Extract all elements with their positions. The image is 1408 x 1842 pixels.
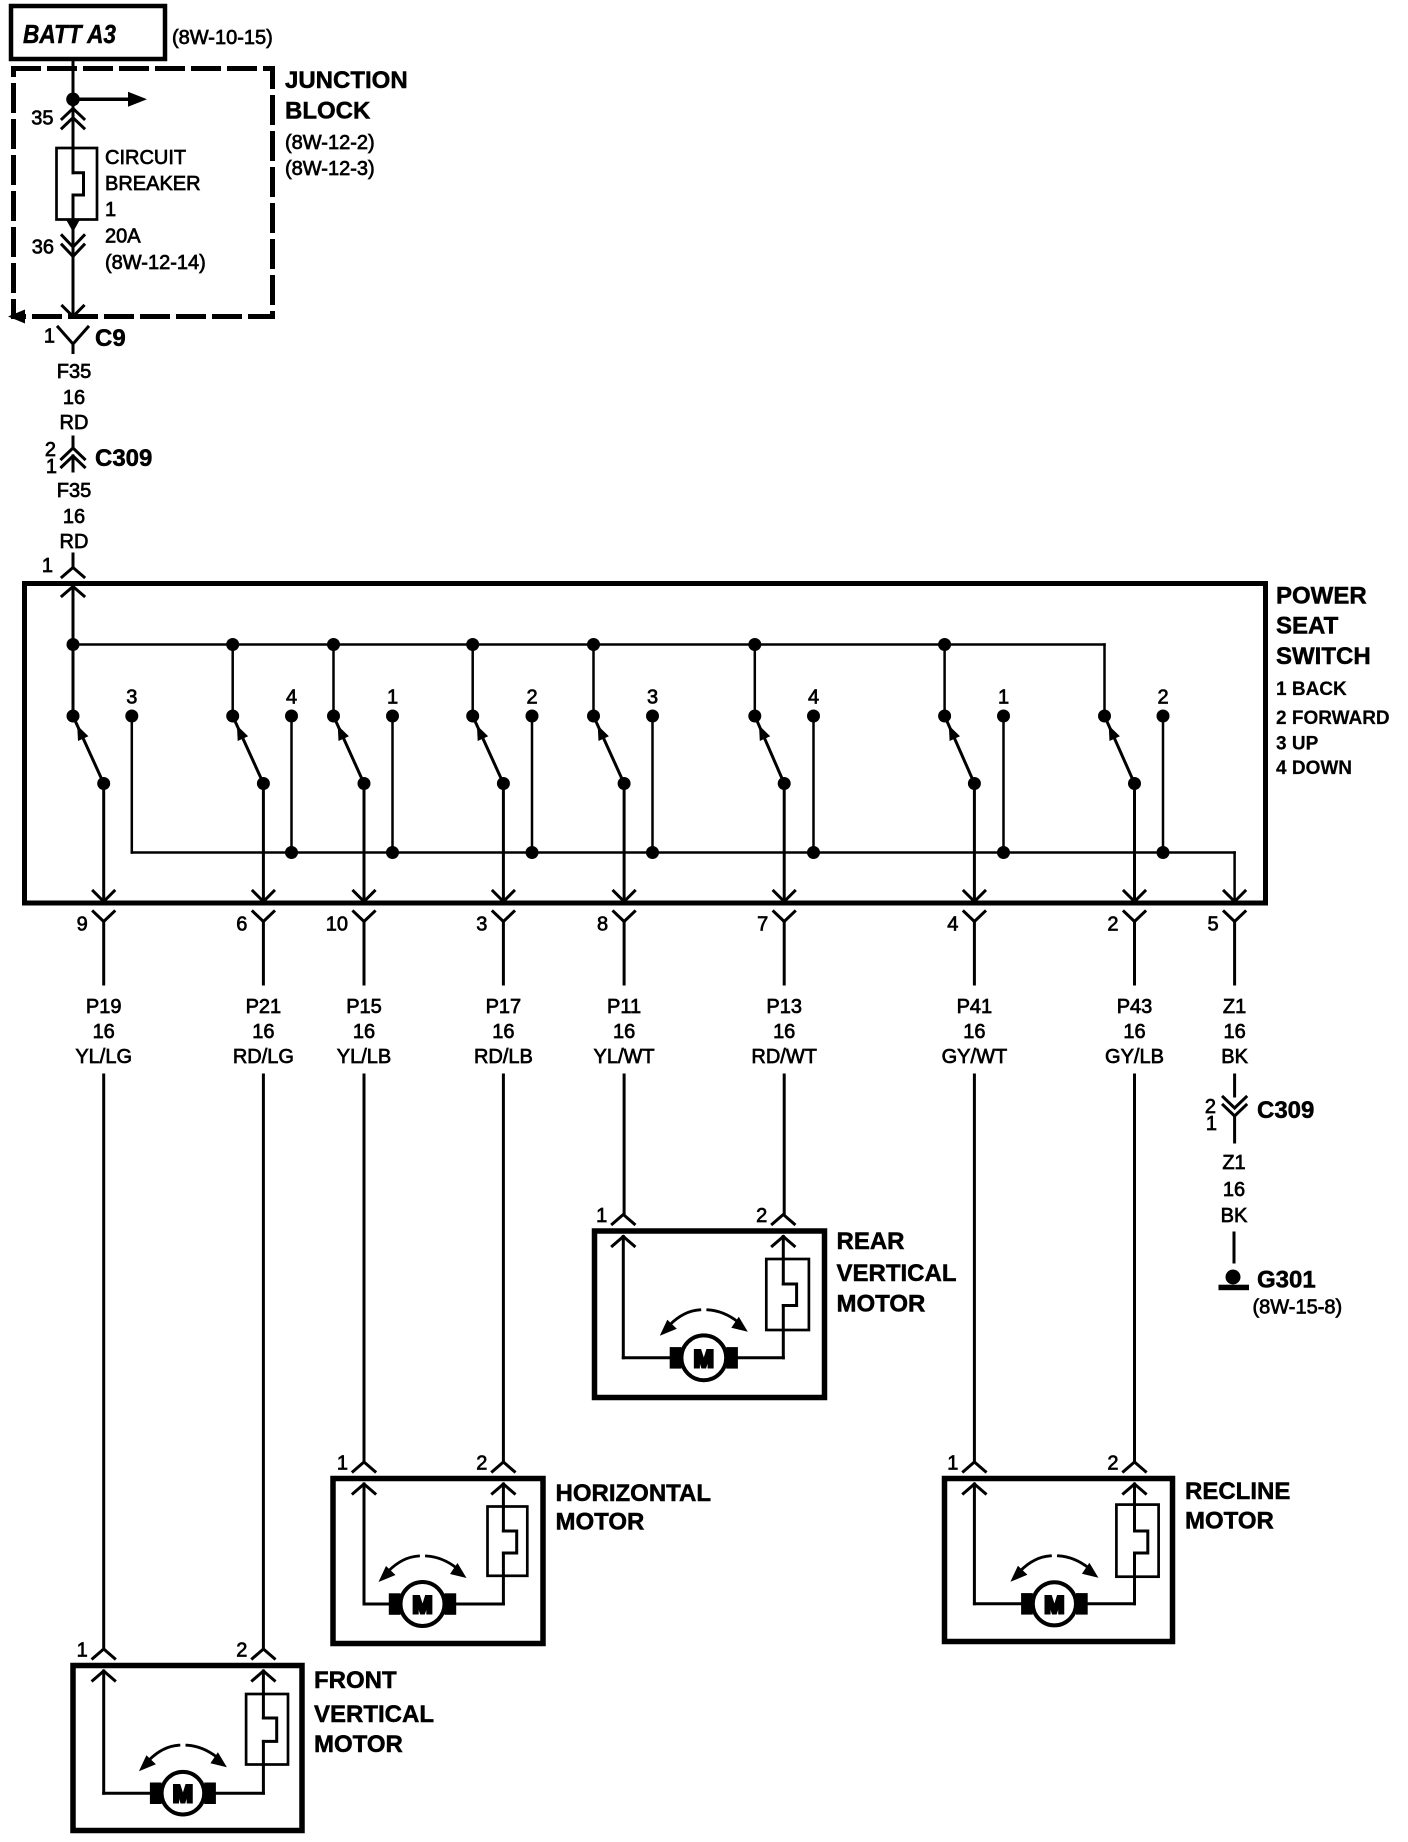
svg-text:RECLINE: RECLINE bbox=[1185, 1478, 1290, 1505]
svg-text:M: M bbox=[173, 1781, 193, 1808]
ground bus junction dot switch 8 bbox=[1157, 846, 1170, 859]
svg-text:1: 1 bbox=[596, 1205, 607, 1227]
front vertical motor rotation arrows bbox=[149, 1745, 179, 1760]
wire P17 to horizontal motor bbox=[502, 1075, 505, 1462]
rear vertical motor pin 1 entry arrow bbox=[612, 1237, 634, 1247]
svg-text:(8W-10-15): (8W-10-15) bbox=[172, 27, 273, 49]
switch 2 fixed contact stub bbox=[290, 716, 293, 853]
svg-text:C309: C309 bbox=[95, 445, 152, 472]
horizontal motor pin 1 entry arrow bbox=[353, 1484, 375, 1494]
svg-text:MOTOR: MOTOR bbox=[837, 1291, 926, 1318]
svg-text:YL/LB: YL/LB bbox=[337, 1046, 391, 1068]
pin 9 exit arrow bbox=[93, 891, 114, 902]
rear vertical motor brushes bbox=[670, 1347, 682, 1369]
ground G301 bbox=[1226, 1270, 1241, 1285]
ground bus junction dot switch 5 bbox=[646, 846, 659, 859]
svg-text:4 DOWN: 4 DOWN bbox=[1276, 758, 1352, 779]
svg-text:16: 16 bbox=[252, 1021, 274, 1043]
svg-text:JUNCTION: JUNCTION bbox=[285, 67, 408, 94]
switch 7 pole contact bbox=[938, 710, 951, 723]
pin 3 exit arrow bbox=[493, 891, 514, 902]
svg-text:3 UP: 3 UP bbox=[1276, 734, 1319, 755]
svg-text:GY/WT: GY/WT bbox=[942, 1046, 1008, 1068]
front vertical motor pin 2 internal wire with breaker jog bbox=[262, 1671, 265, 1718]
wire switch 3 output to pin 10 bbox=[363, 784, 366, 902]
svg-text:RD: RD bbox=[60, 412, 89, 434]
bus junction dot switch 6 bbox=[748, 638, 761, 651]
junction block dashed boundary bbox=[14, 69, 273, 317]
svg-text:1 BACK: 1 BACK bbox=[1276, 679, 1347, 700]
wire BK to ground G301 bbox=[1233, 1233, 1236, 1262]
svg-text:P17: P17 bbox=[486, 996, 522, 1018]
wire switch 4 output to pin 3 bbox=[502, 784, 505, 902]
svg-text:2: 2 bbox=[1107, 1453, 1118, 1475]
horizontal motor rotation arrows bbox=[389, 1556, 419, 1571]
svg-text:RD/LB: RD/LB bbox=[474, 1046, 533, 1068]
pin 5 exit arrow bbox=[1224, 891, 1245, 902]
ground bus junction dot switch 4 bbox=[526, 846, 539, 859]
pin 10 exit arrow bbox=[354, 891, 375, 902]
horizontal motor pin 1 internal wire bbox=[363, 1484, 366, 1604]
common feed bus bbox=[73, 643, 1105, 646]
bus junction dot switch 7 bbox=[938, 638, 951, 651]
recline motor housing bbox=[945, 1479, 1173, 1642]
svg-text:(8W-12-2): (8W-12-2) bbox=[285, 132, 375, 154]
svg-text:16: 16 bbox=[1123, 1021, 1145, 1043]
svg-text:VERTICAL: VERTICAL bbox=[314, 1701, 434, 1728]
switch 2 pole stub bbox=[231, 645, 234, 717]
bus junction dot switch 4 bbox=[466, 638, 479, 651]
pin 4 exit arrow bbox=[964, 891, 985, 902]
svg-text:1: 1 bbox=[998, 687, 1009, 709]
common ground bus bbox=[132, 851, 1235, 854]
svg-text:1: 1 bbox=[1206, 1113, 1217, 1135]
svg-text:1: 1 bbox=[77, 1640, 88, 1662]
wire P43 to recline motor bbox=[1133, 1075, 1136, 1462]
switch 7 wiper arm bbox=[947, 722, 974, 784]
feed direction arrowhead bbox=[66, 220, 80, 233]
switch 4 pole contact bbox=[466, 710, 479, 723]
switch 2 pole contact bbox=[226, 710, 239, 723]
svg-text:2 FORWARD: 2 FORWARD bbox=[1276, 708, 1390, 729]
svg-text:FRONT: FRONT bbox=[314, 1667, 397, 1694]
svg-text:BK: BK bbox=[1221, 1046, 1248, 1068]
half-arrow at junction block exit bbox=[63, 306, 84, 317]
svg-text:3: 3 bbox=[126, 687, 137, 709]
recline motor armature M bbox=[1033, 1582, 1076, 1625]
switch 6 fixed contact stub bbox=[812, 716, 815, 853]
front vertical motor housing bbox=[73, 1666, 302, 1831]
wire battery to circuit breaker bbox=[72, 60, 75, 173]
svg-text:M: M bbox=[1044, 1592, 1064, 1619]
ground bus junction dot switch 3 bbox=[386, 846, 399, 859]
svg-text:GY/LB: GY/LB bbox=[1105, 1046, 1164, 1068]
pin 6 exit arrow bbox=[253, 891, 274, 902]
wire switch 6 output to pin 7 bbox=[783, 784, 786, 902]
svg-text:Z1: Z1 bbox=[1223, 996, 1246, 1018]
pin 8 exit arrow bbox=[614, 891, 635, 902]
svg-text:2: 2 bbox=[756, 1205, 767, 1227]
front vertical motor brushes bbox=[150, 1783, 162, 1805]
wire P21 to front vertical motor bbox=[262, 1075, 265, 1649]
svg-text:2: 2 bbox=[526, 687, 537, 709]
switch 4 pole stub bbox=[471, 645, 474, 717]
svg-text:P11: P11 bbox=[607, 996, 641, 1018]
svg-text:36: 36 bbox=[32, 237, 54, 259]
horizontal motor housing bbox=[333, 1479, 543, 1644]
pin 2 exit arrow bbox=[1124, 891, 1145, 902]
wire P11 to rear vertical motor bbox=[623, 1075, 626, 1215]
switch 4 fixed contact stub bbox=[531, 716, 534, 853]
switch 8 wiper arm bbox=[1107, 722, 1135, 784]
bus junction dot switch 3 bbox=[327, 638, 340, 651]
svg-text:P21: P21 bbox=[246, 996, 282, 1018]
bus junction dot switch 1 bbox=[67, 638, 80, 651]
front vertical motor armature M bbox=[162, 1772, 205, 1815]
svg-text:MOTOR: MOTOR bbox=[1185, 1508, 1274, 1535]
switch 6 pole stub bbox=[754, 645, 757, 717]
svg-text:1: 1 bbox=[947, 1453, 958, 1475]
switch 7 fixed contact stub bbox=[1002, 716, 1005, 853]
svg-text:16: 16 bbox=[63, 506, 85, 528]
svg-text:(8W-15-8): (8W-15-8) bbox=[1253, 1297, 1343, 1319]
svg-text:4: 4 bbox=[947, 914, 958, 936]
svg-text:16: 16 bbox=[613, 1021, 635, 1043]
horizontal motor internal circuit breaker bbox=[488, 1507, 528, 1576]
rear vertical motor housing bbox=[595, 1231, 825, 1398]
front vertical motor internal circuit breaker bbox=[246, 1694, 288, 1765]
switch 7 pole stub bbox=[943, 645, 946, 717]
svg-text:RD: RD bbox=[60, 531, 89, 553]
svg-text:16: 16 bbox=[93, 1021, 115, 1043]
svg-text:1: 1 bbox=[46, 456, 57, 478]
power seat switch housing bbox=[25, 584, 1266, 904]
front vertical motor pin 1 internal wire bbox=[102, 1671, 105, 1793]
junction node dot bbox=[66, 93, 80, 107]
horizontal motor armature M bbox=[401, 1582, 445, 1626]
svg-text:16: 16 bbox=[1223, 1179, 1245, 1201]
svg-text:4: 4 bbox=[286, 687, 297, 709]
recline motor internal circuit breaker bbox=[1116, 1505, 1158, 1577]
svg-text:Z1: Z1 bbox=[1222, 1152, 1245, 1174]
switch 3 output contact dot bbox=[358, 777, 371, 790]
circuit breaker element jog bbox=[73, 173, 84, 195]
svg-text:MOTOR: MOTOR bbox=[314, 1731, 403, 1758]
recline motor pin 2 internal wire with breaker jog bbox=[1133, 1484, 1136, 1531]
svg-text:1: 1 bbox=[337, 1453, 348, 1475]
svg-text:8: 8 bbox=[597, 914, 608, 936]
wire switch 7 output to pin 4 bbox=[973, 784, 976, 902]
wire switch 2 output to pin 6 bbox=[262, 784, 265, 902]
svg-text:P41: P41 bbox=[957, 996, 993, 1018]
wire P15 to horizontal motor bbox=[363, 1075, 366, 1462]
recline motor pin 1 internal wire bbox=[973, 1484, 976, 1604]
svg-text:3: 3 bbox=[647, 687, 658, 709]
ground bus junction dot switch 6 bbox=[807, 846, 820, 859]
svg-text:2: 2 bbox=[1107, 914, 1118, 936]
switch 7 output contact dot bbox=[968, 777, 981, 790]
wire Z1 to connector C309 bbox=[1233, 1075, 1236, 1096]
svg-text:1: 1 bbox=[42, 555, 53, 577]
svg-text:HORIZONTAL: HORIZONTAL bbox=[556, 1480, 712, 1507]
svg-text:P19: P19 bbox=[86, 996, 122, 1018]
svg-text:F35: F35 bbox=[57, 480, 91, 502]
svg-text:16: 16 bbox=[492, 1021, 514, 1043]
svg-text:C9: C9 bbox=[95, 325, 126, 352]
svg-text:20A: 20A bbox=[105, 226, 141, 248]
svg-text:1: 1 bbox=[44, 326, 55, 348]
svg-text:CIRCUIT: CIRCUIT bbox=[105, 147, 186, 169]
svg-text:7: 7 bbox=[757, 914, 768, 936]
svg-text:VERTICAL: VERTICAL bbox=[837, 1260, 957, 1287]
svg-text:1: 1 bbox=[105, 199, 116, 221]
switch 5 wiper arm bbox=[596, 722, 624, 784]
svg-text:16: 16 bbox=[773, 1021, 795, 1043]
junction block bottom-edge left arrow bbox=[8, 310, 25, 324]
bus junction dot switch 5 bbox=[587, 638, 600, 651]
ground bus junction dot switch 7 bbox=[997, 846, 1010, 859]
svg-text:BATT A3: BATT A3 bbox=[23, 19, 116, 49]
horizontal motor pin 2 internal wire with breaker jog bbox=[502, 1484, 505, 1531]
svg-text:RD/LG: RD/LG bbox=[233, 1046, 294, 1068]
switch 1 pole contact bbox=[67, 710, 80, 723]
switch 6 pole contact bbox=[748, 710, 761, 723]
rear vertical motor pin 2 internal wire with breaker jog bbox=[782, 1237, 785, 1285]
switch 1 output contact dot bbox=[97, 777, 110, 790]
switch 8 output contact dot bbox=[1128, 777, 1141, 790]
svg-text:G301: G301 bbox=[1257, 1267, 1316, 1294]
svg-text:RD/WT: RD/WT bbox=[751, 1046, 817, 1068]
wire P41 to recline motor bbox=[973, 1075, 976, 1462]
switch 6 output contact dot bbox=[778, 777, 791, 790]
switch 8 fixed contact stub bbox=[1162, 716, 1165, 853]
switch 4 wiper arm bbox=[475, 722, 503, 784]
svg-text:BLOCK: BLOCK bbox=[285, 98, 371, 125]
svg-text:(8W-12-3): (8W-12-3) bbox=[285, 158, 375, 180]
recline motor pin 2 entry arrow bbox=[1124, 1484, 1146, 1494]
ground bus junction dot switch 2 bbox=[285, 846, 298, 859]
svg-text:3: 3 bbox=[476, 914, 487, 936]
horizontal motor brushes bbox=[389, 1593, 401, 1615]
svg-text:M: M bbox=[413, 1592, 433, 1619]
svg-text:P13: P13 bbox=[766, 996, 802, 1018]
svg-text:16: 16 bbox=[1223, 1021, 1245, 1043]
wire switch 1 output to pin 9 bbox=[102, 784, 105, 902]
svg-text:P15: P15 bbox=[346, 996, 382, 1018]
switch 6 wiper arm bbox=[757, 722, 784, 784]
svg-text:F35: F35 bbox=[57, 361, 91, 383]
svg-text:BREAKER: BREAKER bbox=[105, 173, 201, 195]
rear vertical motor pin 1 internal wire bbox=[622, 1237, 625, 1358]
circuit breaker 1 body bbox=[57, 148, 98, 220]
svg-text:C309: C309 bbox=[1257, 1097, 1314, 1124]
svg-text:YL/WT: YL/WT bbox=[594, 1046, 655, 1068]
svg-text:2: 2 bbox=[1157, 687, 1168, 709]
switch 3 pole contact bbox=[327, 710, 340, 723]
front vertical motor pin 1 entry arrow bbox=[93, 1671, 115, 1681]
svg-text:16: 16 bbox=[353, 1021, 375, 1043]
bus junction dot switch 2 bbox=[226, 638, 239, 651]
switch 1 fixed contact stub bbox=[131, 716, 134, 853]
front vertical motor pin 2 entry arrow bbox=[252, 1671, 274, 1681]
horizontal motor pin 2 entry arrow bbox=[492, 1484, 514, 1494]
switch 8 pole contact bbox=[1098, 710, 1111, 723]
switch 1 wiper arm bbox=[76, 722, 104, 784]
svg-text:35: 35 bbox=[31, 108, 53, 130]
switch 3 pole stub bbox=[332, 645, 335, 717]
svg-text:YL/LG: YL/LG bbox=[75, 1046, 132, 1068]
svg-text:SWITCH: SWITCH bbox=[1276, 643, 1371, 670]
svg-text:SEAT: SEAT bbox=[1276, 613, 1339, 640]
battery feed box BATT A3 bbox=[11, 6, 165, 59]
svg-text:16: 16 bbox=[963, 1021, 985, 1043]
feed arrow right bbox=[73, 98, 129, 102]
wire P19 to front vertical motor bbox=[102, 1075, 105, 1649]
svg-text:POWER: POWER bbox=[1276, 583, 1367, 610]
recline motor pin 1 entry arrow bbox=[963, 1484, 985, 1494]
rear vertical motor pin 2 entry arrow bbox=[772, 1237, 794, 1247]
switch 5 pole contact bbox=[587, 710, 600, 723]
switch 3 wiper arm bbox=[336, 722, 364, 784]
svg-text:6: 6 bbox=[236, 914, 247, 936]
svg-text:2: 2 bbox=[236, 1640, 247, 1662]
svg-text:MOTOR: MOTOR bbox=[556, 1509, 645, 1536]
svg-text:4: 4 bbox=[808, 687, 819, 709]
switch 3 fixed contact stub bbox=[391, 716, 394, 853]
switch 4 output contact dot bbox=[497, 777, 510, 790]
switch 5 output contact dot bbox=[618, 777, 631, 790]
switch 2 wiper arm bbox=[235, 722, 263, 784]
wire switch 5 output to pin 8 bbox=[623, 784, 626, 902]
svg-text:16: 16 bbox=[63, 387, 85, 409]
switch 5 fixed contact stub bbox=[651, 716, 654, 853]
wire switch 8 output to pin 2 bbox=[1133, 784, 1136, 902]
svg-text:9: 9 bbox=[77, 914, 88, 936]
switch 2 output contact dot bbox=[257, 777, 270, 790]
pin 7 exit arrow bbox=[774, 891, 795, 902]
rear vertical motor rotation arrows bbox=[670, 1310, 700, 1325]
svg-text:(8W-12-14): (8W-12-14) bbox=[105, 252, 206, 274]
svg-text:10: 10 bbox=[326, 914, 348, 936]
recline motor rotation arrows bbox=[1020, 1556, 1050, 1571]
svg-text:P43: P43 bbox=[1117, 996, 1153, 1018]
rear vertical motor internal circuit breaker bbox=[766, 1259, 809, 1330]
svg-text:2: 2 bbox=[476, 1453, 487, 1475]
svg-text:5: 5 bbox=[1207, 914, 1218, 936]
recline motor brushes bbox=[1021, 1593, 1033, 1615]
svg-text:M: M bbox=[694, 1346, 714, 1373]
wire pin1 entry to common bus bbox=[72, 587, 75, 717]
switch 5 pole stub bbox=[592, 645, 595, 717]
svg-text:BK: BK bbox=[1221, 1205, 1248, 1227]
svg-text:REAR: REAR bbox=[837, 1228, 905, 1255]
svg-text:1: 1 bbox=[387, 687, 398, 709]
rear vertical motor armature M bbox=[681, 1335, 726, 1380]
wire breaker down to junction block edge bbox=[72, 195, 75, 317]
wire P13 to rear vertical motor bbox=[783, 1075, 786, 1215]
